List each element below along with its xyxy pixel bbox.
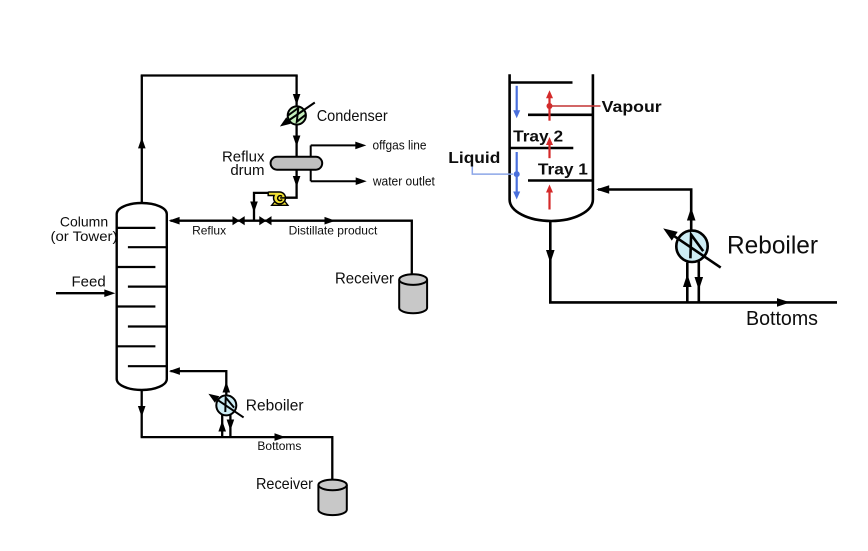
wire column bottom outlet (detail) xyxy=(546,221,555,302)
tray between line (detail) xyxy=(510,147,574,150)
svg-text:Receiver: Receiver xyxy=(335,270,395,287)
receiver tank (distillate) xyxy=(399,274,427,313)
svg-text:Vapour: Vapour xyxy=(602,99,662,116)
wire drum to pump suction xyxy=(285,170,301,198)
vapour arrow top (red) xyxy=(546,90,553,120)
svg-text:drum: drum xyxy=(230,162,264,179)
wire reboiler bottoms drop (detail) xyxy=(695,262,704,303)
wire pump discharge down to header xyxy=(250,193,268,220)
wire reboiler bottoms drop (left) xyxy=(227,415,235,438)
valve V1 (reflux valve) xyxy=(233,217,244,224)
valve V2 (distillate valve) xyxy=(260,217,271,224)
wire reboiler feed riser (left) xyxy=(218,415,226,438)
svg-text:water outlet: water outlet xyxy=(372,173,435,188)
reboiler heat-exchanger symbol (left) xyxy=(208,394,243,418)
tray 2 line (detail) xyxy=(528,114,593,117)
svg-text:Tray 1: Tray 1 xyxy=(538,161,588,178)
receiver tank (bottoms) xyxy=(318,480,346,515)
vapour node dot xyxy=(547,103,553,109)
tray line 7 (left column) xyxy=(117,345,156,347)
vapour arrow middle (red) xyxy=(546,137,553,158)
wire condenser to reflux drum xyxy=(293,125,301,158)
svg-text:Bottoms: Bottoms xyxy=(257,439,301,453)
vapour arrow bottom (red) xyxy=(546,185,553,210)
svg-text:Reflux: Reflux xyxy=(192,223,226,237)
svg-text:Receiver: Receiver xyxy=(256,476,314,493)
liquid node dot xyxy=(514,171,520,177)
svg-text:Tray 2: Tray 2 xyxy=(513,129,563,146)
tray 1 line (detail) xyxy=(528,179,593,182)
wire reboiler vapour return to column xyxy=(169,367,230,396)
wire reboiler feed riser (detail) xyxy=(683,263,692,303)
vapour leader line xyxy=(550,105,601,107)
label Reflux drum xyxy=(222,149,265,180)
wire bottoms header to receiver xyxy=(141,433,333,481)
condenser heat-exchanger symbol xyxy=(280,103,315,127)
wire overhead riser from column top xyxy=(138,76,146,204)
tray line 1 (left column) xyxy=(117,227,156,229)
svg-text:Condenser: Condenser xyxy=(317,108,389,125)
wire offgas/water tee vertical xyxy=(310,145,312,181)
wire overhead top horizontal xyxy=(141,74,298,76)
svg-text:Reboiler: Reboiler xyxy=(727,231,818,259)
reflux drum vessel xyxy=(271,157,323,170)
svg-text:Liquid: Liquid xyxy=(448,150,500,167)
wire drop into condenser xyxy=(293,76,301,107)
liquid arrow upper (blue) xyxy=(513,86,520,119)
reboiler heat-exchanger symbol (detail) xyxy=(663,228,721,267)
wire water outlet with arrow xyxy=(311,177,367,185)
tray line 3 (left column) xyxy=(117,266,156,268)
column shell (detail view) xyxy=(510,74,593,221)
tray line top (detail) xyxy=(510,81,573,84)
tray line 4 (left column) xyxy=(128,286,167,288)
wire feed arrow xyxy=(56,289,115,297)
wire offgas line with arrow xyxy=(311,142,367,150)
svg-text:Distillate product: Distillate product xyxy=(289,223,378,237)
wire reflux/distillate header xyxy=(169,217,412,276)
wire reboiler vapour return (detail) xyxy=(596,185,695,231)
wire bottoms line (detail) xyxy=(549,298,837,307)
column (or tower) shell xyxy=(117,203,167,390)
svg-text:Reboiler: Reboiler xyxy=(246,398,304,415)
svg-text:Feed: Feed xyxy=(72,274,106,291)
label Column (or Tower) xyxy=(51,213,118,244)
svg-text:offgas line: offgas line xyxy=(373,138,427,153)
tray line 8 (left column) xyxy=(128,365,167,367)
pump P1 (reflux pump) xyxy=(268,192,288,205)
svg-text:(or Tower): (or Tower) xyxy=(51,228,118,244)
wire column bottom outlet xyxy=(138,391,146,438)
tray line 2 (left column) xyxy=(128,246,167,248)
tray line 6 (left column) xyxy=(128,325,167,327)
liquid arrow lower (blue) xyxy=(513,152,520,200)
liquid leader line xyxy=(472,165,513,174)
svg-text:Bottoms: Bottoms xyxy=(746,308,818,330)
tray line 5 (left column) xyxy=(117,305,156,307)
